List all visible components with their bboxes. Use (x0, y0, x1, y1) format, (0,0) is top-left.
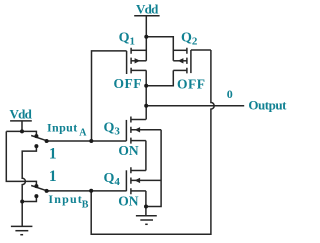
svg-text:ON: ON (118, 143, 139, 158)
svg-text:OFF: OFF (114, 76, 142, 91)
svg-text:OFF: OFF (177, 77, 205, 92)
wire Vdd stem down to junction (145, 16, 147, 37)
node switch A common (45, 139, 49, 143)
transistor Q4 (NMOS) (126, 167, 161, 194)
svg-text:Q1: Q1 (119, 30, 135, 47)
node output junction (144, 104, 148, 108)
wire switch A ground contact to ground rail (with hop under left rail) (22, 146, 36, 226)
switch A blade (set to 1 / Vdd) (31, 136, 49, 142)
svg-text:Q2: Q2 (181, 30, 198, 47)
transistor Q2 (PMOS, mirrored) (173, 48, 191, 74)
power rail Vdd (left) underline (10, 120, 32, 122)
wire Q1 source/body tie vertical (145, 37, 147, 61)
ground (NMOS source) (136, 216, 157, 225)
wire Q2 drain down and left to output junction (146, 70, 173, 85)
svg-text:Vdd: Vdd (10, 106, 33, 121)
wire NMOS body rail to source junction (146, 130, 161, 207)
wire switch B ground contact jog to ground rail (22, 196, 36, 201)
wire Q1 drain down centre column to Q3 (145, 70, 147, 119)
svg-text:A: A (79, 128, 87, 139)
svg-text:1: 1 (49, 168, 57, 185)
svg-text:Vdd: Vdd (136, 1, 159, 16)
node switch B top contact (34, 184, 38, 188)
node Vdd junction (144, 35, 148, 39)
node ground rail junction (20, 200, 24, 204)
wire Input B to gate of Q4 (47, 190, 127, 192)
wire left rail down to switch B top contact (6, 131, 36, 184)
node switch A ground contact (34, 144, 38, 148)
svg-text:Output: Output (248, 98, 287, 113)
svg-text:Input: Input (48, 192, 81, 206)
svg-text:ON: ON (118, 194, 139, 209)
power rail Vdd (top) underline (134, 15, 159, 17)
wire Q3 source to Q4 drain (145, 141, 147, 171)
node Vdd left junction (20, 129, 24, 133)
node switch B ground contact (34, 194, 38, 198)
node NMOS source/body junction (144, 205, 148, 209)
svg-text:0: 0 (227, 87, 233, 101)
wire right rail (gate B net) with hop over output line (91, 50, 214, 234)
wire Vdd feed to switch A top contact (6, 131, 36, 134)
wire Q1 gate to left rail down to Input A (92, 51, 127, 141)
node Input B gate junction (89, 189, 93, 193)
node switch B common (45, 189, 49, 193)
switch B blade (set to 1 / Vdd) (31, 186, 49, 192)
wire Q4 source stem to ground (145, 191, 147, 216)
transistor Q3 (NMOS) (126, 117, 161, 144)
transistor Q1 (PMOS) (127, 48, 147, 74)
svg-text:1: 1 (49, 145, 57, 162)
node Input A gate junction (89, 139, 93, 143)
wire output line with junction (146, 105, 244, 107)
node drain junction Q1/Q2 (144, 84, 148, 88)
svg-text:Input: Input (47, 120, 77, 134)
ground (input switches) (11, 226, 33, 234)
wire Input A to gates of Q1 and Q3 (47, 140, 127, 142)
svg-text:Q4: Q4 (104, 171, 121, 188)
wire Q2 gate lead to right rail (191, 49, 211, 51)
svg-text:B: B (82, 199, 89, 210)
svg-text:Q3: Q3 (104, 120, 121, 137)
node switch A top contact (34, 134, 38, 138)
wire Vdd junction to Q2 source/body tie (146, 37, 173, 61)
wire Vdd left stem (21, 121, 23, 131)
